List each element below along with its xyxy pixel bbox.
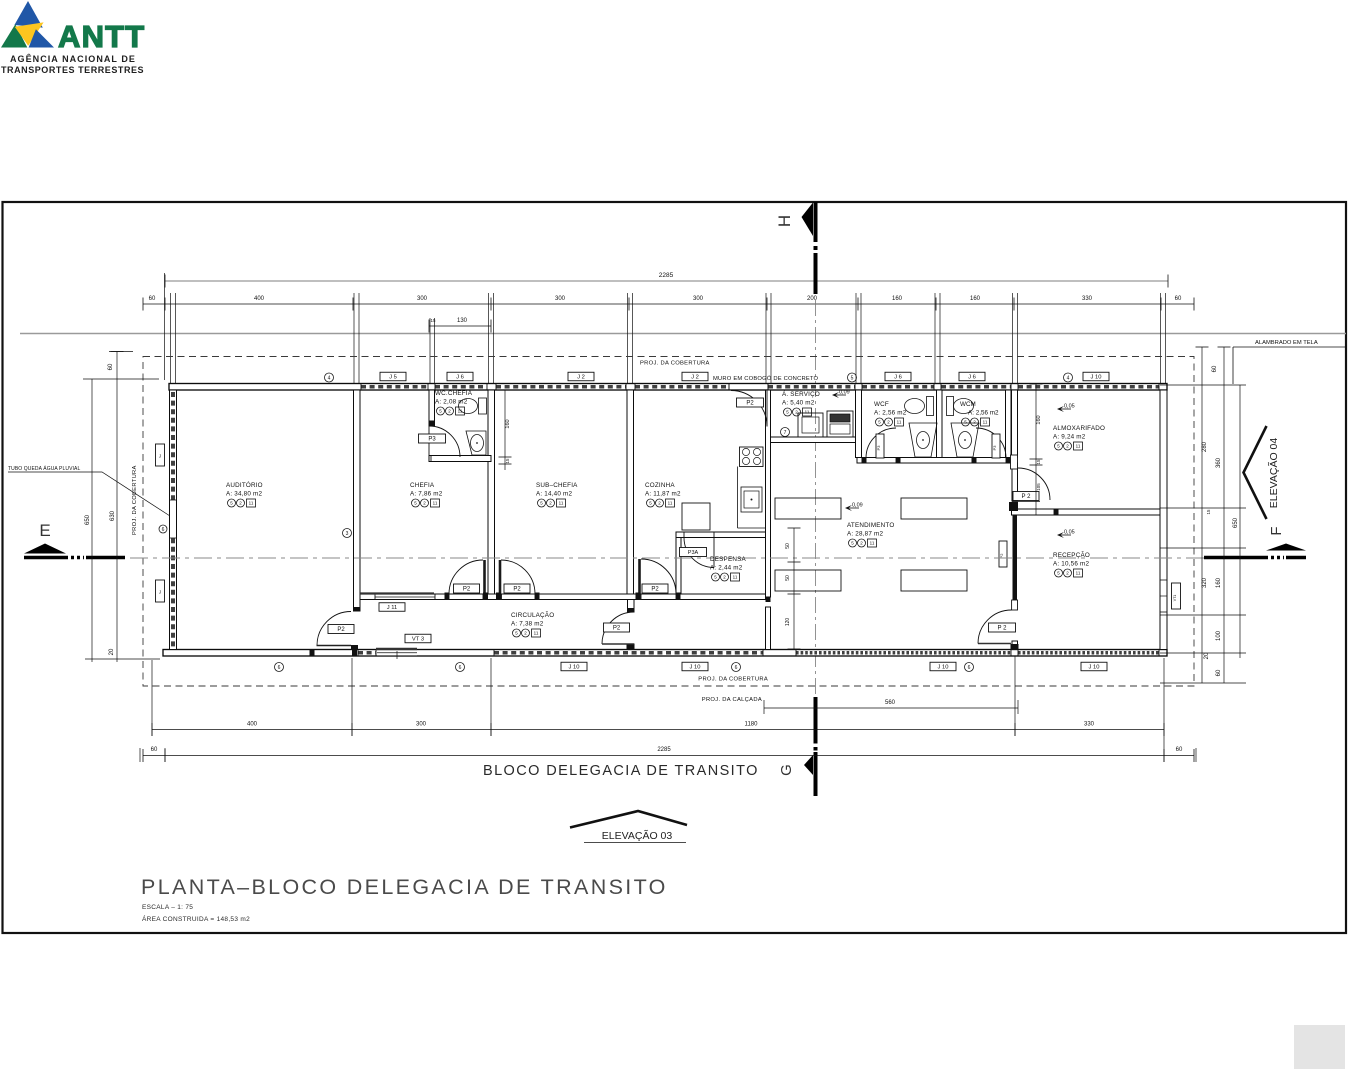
svg-text:PROJ. DA COBERTURA: PROJ. DA COBERTURA [640,361,710,367]
svg-text:CIRCULAÇÃO: CIRCULAÇÃO [511,610,554,619]
svg-text:TUBO QUEDA ÁGUA PLUVIAL: TUBO QUEDA ÁGUA PLUVIAL [8,465,80,472]
svg-text:P3: P3 [876,445,881,451]
svg-text:200: 200 [807,296,818,302]
svg-text:RECEPÇÃO: RECEPÇÃO [1053,550,1090,559]
svg-text:Á. SERVIÇO: Á. SERVIÇO [782,389,820,398]
svg-text:A: 7,38 m2: A: 7,38 m2 [511,621,544,628]
svg-text:6: 6 [162,527,165,533]
svg-text:11: 11 [534,631,539,636]
svg-text:J 10: J 10 [1089,664,1100,670]
svg-text:ÁREA CONSTRUIDA = 148,53 m2: ÁREA CONSTRUIDA = 148,53 m2 [142,914,250,923]
svg-text:11: 11 [733,575,738,580]
svg-text:160: 160 [1216,577,1222,588]
svg-text:A: 28,87 m2: A: 28,87 m2 [847,531,883,538]
svg-text:AUDITÓRIO: AUDITÓRIO [226,480,263,489]
svg-text:15: 15 [1206,509,1211,515]
svg-text:A: 9,24 m2: A: 9,24 m2 [1053,434,1086,441]
svg-text:50: 50 [785,575,791,581]
svg-text:0,09: 0,09 [852,503,863,509]
svg-text:A: 2,44 m2: A: 2,44 m2 [710,565,743,572]
svg-text:60: 60 [1176,747,1183,753]
svg-text:WCM: WCM [960,401,976,408]
svg-text:H: H [775,215,794,227]
svg-text:100: 100 [1216,630,1222,641]
svg-text:MURO EM COBOGÓ DE CONCRETO: MURO EM COBOGÓ DE CONCRETO [713,375,819,382]
svg-text:105: 105 [1036,483,1041,491]
svg-text:300: 300 [555,296,566,302]
svg-text:160: 160 [892,296,903,302]
svg-text:11: 11 [249,501,254,506]
svg-text:TRANSPORTES TERRESTRES: TRANSPORTES TERRESTRES [1,65,144,75]
svg-text:P2: P2 [463,587,471,593]
svg-text:1180: 1180 [745,722,759,728]
svg-text:ELEVAÇÃO 03: ELEVAÇÃO 03 [602,829,673,842]
svg-text:15: 15 [505,458,510,464]
svg-text:WCF: WCF [874,401,889,408]
svg-text:6: 6 [735,665,738,671]
svg-text:7: 7 [784,430,787,436]
svg-text:J 10: J 10 [690,664,701,670]
svg-text:P2: P2 [613,626,621,632]
svg-text:P 2: P 2 [998,626,1008,632]
svg-text:J 2: J 2 [577,374,585,380]
svg-text:COZINHA: COZINHA [645,482,675,489]
svg-text:6: 6 [278,665,281,671]
svg-text:330: 330 [1082,296,1093,302]
svg-text:20: 20 [109,648,115,655]
svg-text:J 10: J 10 [1091,374,1102,380]
svg-text:ATENDIMENTO: ATENDIMENTO [847,522,894,529]
svg-text:5: 5 [851,375,854,381]
svg-text:BLOCO DELEGACIA DE TRANSITO: BLOCO DELEGACIA DE TRANSITO [483,763,759,779]
svg-text:ANTT: ANTT [58,19,145,54]
svg-text:60: 60 [149,296,156,302]
svg-text:0,09: 0,09 [839,390,850,396]
svg-text:A: 2,56 m2: A: 2,56 m2 [968,410,999,417]
svg-text:A: 34,80 m2: A: 34,80 m2 [226,491,262,498]
svg-text:P3A: P3A [688,550,699,556]
svg-text:11: 11 [870,541,875,546]
svg-text:60: 60 [1216,669,1222,676]
svg-text:A: 10,56 m2: A: 10,56 m2 [1053,561,1089,568]
svg-text:4: 4 [1067,375,1070,381]
svg-text:400: 400 [247,722,258,728]
svg-text:60: 60 [108,363,114,370]
svg-text:280: 280 [1202,441,1208,452]
svg-text:15: 15 [1036,459,1041,465]
svg-text:60: 60 [151,747,158,753]
svg-text:P2: P2 [513,587,521,593]
svg-text:6: 6 [968,665,971,671]
svg-text:A: 14,40 m2: A: 14,40 m2 [536,491,572,498]
svg-text:11: 11 [1076,571,1081,576]
svg-text:A: 5,40 m2: A: 5,40 m2 [782,400,815,407]
svg-text:300: 300 [693,296,704,302]
svg-text:11: 11 [897,420,902,425]
svg-text:60: 60 [1212,365,1218,372]
svg-text:20: 20 [1204,652,1210,659]
svg-text:PROJ. DA CALÇADA: PROJ. DA CALÇADA [702,697,762,703]
svg-text:160: 160 [505,419,511,428]
svg-text:2285: 2285 [657,747,671,753]
svg-text:CHEFIA: CHEFIA [410,482,435,489]
svg-text:VT 3: VT 3 [412,636,424,642]
svg-text:G: G [778,764,795,776]
svg-text:WC.CHEFIA: WC.CHEFIA [435,390,473,397]
svg-text:15: 15 [430,318,436,323]
svg-text:560: 560 [885,700,896,706]
svg-text:0,05: 0,05 [1064,404,1075,410]
svg-text:DESPENSA: DESPENSA [710,556,746,563]
svg-text:11: 11 [668,501,673,506]
svg-text:11: 11 [433,501,438,506]
svg-text:400: 400 [254,296,265,302]
svg-text:630: 630 [110,510,116,521]
svg-text:J: J [159,454,161,459]
svg-text:J 10: J 10 [569,664,580,670]
svg-text:E: E [39,521,50,540]
svg-text:PROJ. DA COBERTURA: PROJ. DA COBERTURA [698,677,768,683]
svg-text:2285: 2285 [659,272,674,279]
svg-text:J 6: J 6 [456,374,464,380]
svg-text:A: 2,08 m2: A: 2,08 m2 [435,399,468,406]
svg-text:300: 300 [417,296,428,302]
svg-text:330: 330 [1084,722,1095,728]
svg-text:P3: P3 [992,445,997,451]
svg-text:A: 7,86 m2: A: 7,86 m2 [410,491,443,498]
svg-text:P3: P3 [428,437,436,443]
svg-text:650: 650 [85,514,91,525]
svg-text:160: 160 [970,296,981,302]
svg-text:ALMOXARIFADO: ALMOXARIFADO [1053,425,1105,432]
svg-text:300: 300 [416,722,427,728]
svg-text:J 6: J 6 [894,374,902,380]
svg-text:ESCALA – 1: 75: ESCALA – 1: 75 [142,904,193,911]
svg-text:P 2: P 2 [1022,494,1032,500]
svg-text:J 5: J 5 [389,374,397,380]
svg-text:11: 11 [983,420,988,425]
svg-text:ALAMBRADO EM TELA: ALAMBRADO EM TELA [1255,340,1318,346]
svg-text:J 10: J 10 [938,664,949,670]
svg-text:11: 11 [458,409,463,414]
svg-text:P2: P2 [337,627,345,633]
svg-text:0,05: 0,05 [1064,530,1075,536]
svg-text:50: 50 [785,543,791,549]
svg-text:PLANTA–BLOCO DELEGACIA DE T: PLANTA–BLOCO DELEGACIA DE TRANSITO [141,875,668,899]
svg-text:11: 11 [559,501,564,506]
svg-text:360: 360 [1216,457,1222,468]
svg-text:J 6: J 6 [968,374,976,380]
svg-text:650: 650 [1233,517,1239,528]
svg-text:3: 3 [346,531,349,537]
svg-text:320: 320 [1202,577,1208,588]
svg-text:P2: P2 [746,401,754,407]
svg-text:A: 11,87 m2: A: 11,87 m2 [645,491,681,498]
svg-text:11: 11 [805,410,810,415]
svg-text:60: 60 [1175,296,1182,302]
svg-text:120: 120 [785,618,791,627]
svg-text:P2: P2 [651,587,659,593]
svg-text:6: 6 [459,665,462,671]
svg-text:J: J [159,590,161,595]
svg-text:PROJ. DA COBERTURA: PROJ. DA COBERTURA [132,465,138,535]
svg-text:VT1: VT1 [1173,595,1177,602]
svg-text:AGÊNCIA NACIONAL DE: AGÊNCIA NACIONAL DE [10,53,136,64]
svg-text:ELEVAÇÃO 04: ELEVAÇÃO 04 [1267,438,1280,509]
svg-text:F: F [1268,526,1285,535]
svg-text:130: 130 [457,318,468,324]
svg-text:160: 160 [1036,415,1042,424]
svg-text:11: 11 [1076,444,1081,449]
svg-text:J 11: J 11 [387,605,398,611]
svg-text:4: 4 [328,375,331,381]
svg-text:A: 2,56 m2: A: 2,56 m2 [874,410,907,417]
svg-text:J 2: J 2 [691,374,699,380]
svg-text:SUB–CHEFIA: SUB–CHEFIA [536,482,578,489]
